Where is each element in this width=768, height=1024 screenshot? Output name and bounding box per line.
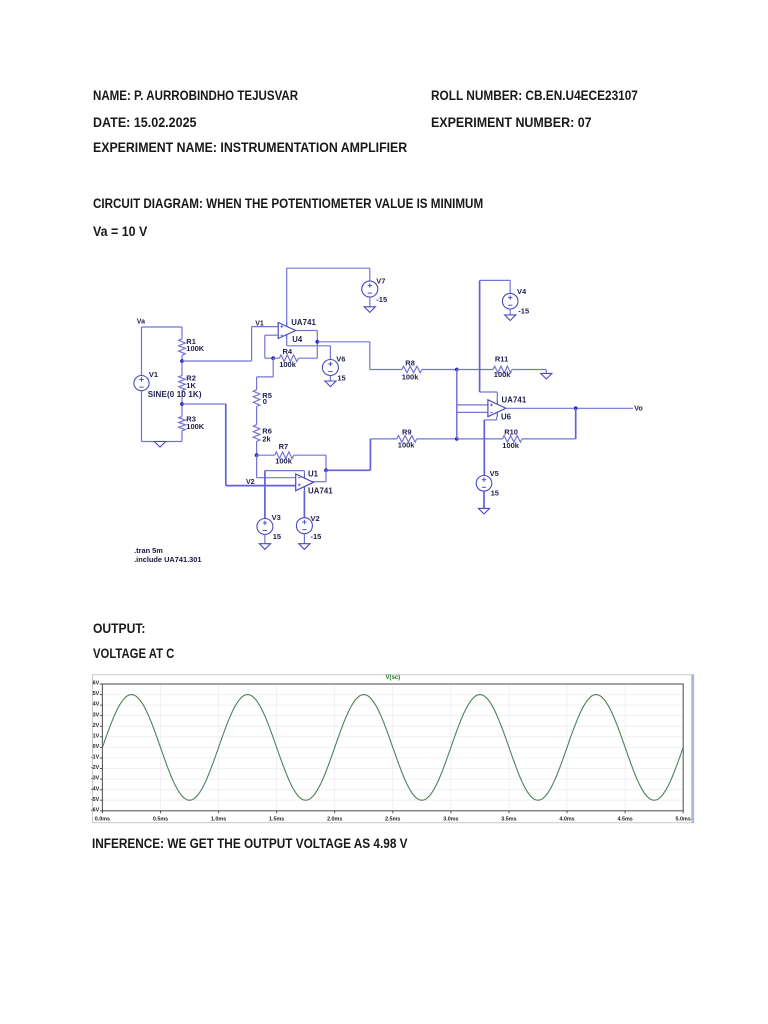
svg-text:Va: Va	[137, 319, 145, 326]
svg-text:-4V: -4V	[91, 786, 100, 792]
svg-text:0.0ms: 0.0ms	[95, 817, 110, 823]
svg-text:R10: R10	[504, 427, 518, 436]
svg-text:U4: U4	[292, 335, 303, 344]
svg-text:SINE(0 10 1K): SINE(0 10 1K)	[148, 390, 202, 399]
svg-text:2.5ms: 2.5ms	[385, 817, 400, 823]
svg-text:4.0ms: 4.0ms	[559, 817, 574, 823]
svg-text:V6: V6	[336, 355, 345, 364]
svg-text:1.5ms: 1.5ms	[269, 817, 284, 823]
svg-text:100k: 100k	[494, 370, 512, 379]
svg-text:R11: R11	[495, 355, 508, 364]
svg-text:3.0ms: 3.0ms	[443, 817, 458, 823]
svg-text:6V: 6V	[93, 681, 100, 687]
svg-text:.include UA741.301: .include UA741.301	[134, 555, 201, 564]
svg-text:0V: 0V	[93, 744, 100, 750]
svg-text:V(sc): V(sc)	[385, 675, 400, 681]
svg-text:5.0ms: 5.0ms	[676, 817, 691, 823]
svg-text:0: 0	[263, 397, 267, 406]
svg-text:UA741: UA741	[291, 318, 316, 327]
svg-text:-3V: -3V	[91, 776, 100, 782]
svg-text:15: 15	[337, 374, 345, 383]
svg-text:V1: V1	[149, 370, 158, 379]
svg-text:.tran 5m: .tran 5m	[134, 546, 163, 555]
svg-text:15: 15	[491, 489, 499, 498]
svg-text:100k: 100k	[402, 372, 420, 381]
svg-text:-6V: -6V	[91, 807, 100, 813]
svg-text:U6: U6	[501, 413, 512, 422]
svg-text:100k: 100k	[275, 457, 293, 466]
svg-text:-15: -15	[376, 295, 387, 304]
svg-text:UA741: UA741	[308, 486, 333, 495]
svg-text:3.5ms: 3.5ms	[501, 817, 516, 823]
svg-text:2.0ms: 2.0ms	[327, 817, 342, 823]
svg-text:1.0ms: 1.0ms	[211, 817, 226, 823]
svg-text:-15: -15	[518, 307, 529, 316]
svg-text:V5: V5	[490, 469, 499, 478]
svg-text:-15: -15	[311, 532, 322, 541]
svg-text:R7: R7	[279, 442, 289, 451]
svg-text:R9: R9	[402, 428, 412, 437]
svg-text:V4: V4	[517, 287, 527, 296]
svg-text:R8: R8	[405, 358, 415, 367]
svg-text:1V: 1V	[93, 733, 100, 739]
svg-text:100K: 100K	[186, 422, 205, 431]
svg-text:V2: V2	[311, 514, 320, 523]
svg-text:R4: R4	[283, 347, 293, 356]
svg-text:1K: 1K	[186, 381, 196, 390]
svg-text:-2V: -2V	[91, 765, 100, 771]
svg-text:100k: 100k	[502, 441, 520, 450]
svg-text:-1V: -1V	[91, 755, 100, 761]
svg-text:100K: 100K	[186, 344, 205, 353]
svg-text:15: 15	[273, 532, 281, 541]
svg-text:UA741: UA741	[502, 396, 527, 405]
svg-text:Vo: Vo	[634, 406, 642, 413]
svg-text:2k: 2k	[262, 435, 271, 444]
svg-text:V2: V2	[246, 479, 255, 486]
svg-text:4V: 4V	[93, 702, 100, 708]
svg-text:V3: V3	[272, 513, 281, 522]
svg-text:5V: 5V	[93, 691, 100, 697]
svg-text:2V: 2V	[93, 723, 100, 729]
svg-text:4.5ms: 4.5ms	[617, 817, 632, 823]
svg-text:V7: V7	[376, 277, 385, 286]
svg-text:U1: U1	[308, 470, 319, 479]
svg-text:3V: 3V	[93, 712, 100, 718]
svg-text:100k: 100k	[279, 360, 297, 369]
svg-text:100k: 100k	[398, 441, 416, 450]
svg-text:0.5ms: 0.5ms	[153, 817, 168, 823]
svg-text:V1: V1	[255, 320, 264, 327]
svg-text:-5V: -5V	[91, 797, 100, 803]
